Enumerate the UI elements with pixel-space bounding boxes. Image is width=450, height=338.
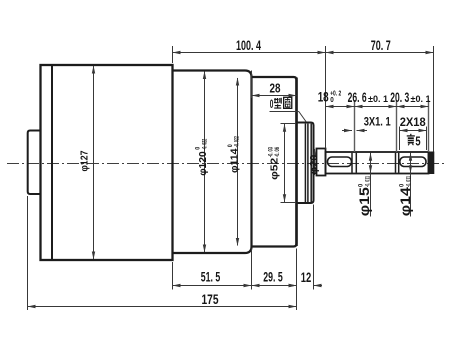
svg-text:-0. 022: -0. 022 <box>235 136 241 147</box>
shaft shoulder line 2 <box>395 153 397 173</box>
motor body phi127 <box>41 65 173 260</box>
bottom extension at front face <box>296 249 298 311</box>
dim phi52 extension lines <box>281 123 297 125</box>
dim 70.7 extension right <box>433 46 435 152</box>
dim phi127 line <box>93 66 95 259</box>
dim 28 extension <box>251 71 253 99</box>
svg-text:12: 12 <box>301 269 312 285</box>
O-ring groove on boss <box>304 124 306 202</box>
svg-text:-0. 022: -0. 022 <box>202 138 208 149</box>
hanzi quan (O-ring label) <box>284 97 292 108</box>
dim phi15 leader <box>370 153 372 217</box>
svg-text:φ120: φ120 <box>197 151 209 176</box>
svg-text:51. 5: 51. 5 <box>201 269 221 285</box>
dim divider extension at shaft root <box>325 46 327 149</box>
end cap seam <box>51 66 53 259</box>
svg-text:100. 4: 100. 4 <box>236 37 261 53</box>
gearbox section phi120 <box>173 71 252 254</box>
bottom extension at phi114 start <box>251 249 253 290</box>
svg-text:φ20: φ20 <box>308 154 320 174</box>
svg-text:70. 7: 70. 7 <box>371 37 391 53</box>
svg-text:φ114: φ114 <box>229 148 241 173</box>
keyway slot 1 <box>328 157 352 167</box>
hanzi kuan (width label) <box>407 134 415 146</box>
svg-text:0: 0 <box>270 97 274 111</box>
svg-text:-0. 011: -0. 011 <box>365 176 372 187</box>
pilot boss phi52 <box>297 123 314 204</box>
boss face inner line <box>310 124 312 202</box>
dim line 51.5 / 29.5 <box>173 285 297 287</box>
svg-text:φ52: φ52 <box>269 158 281 180</box>
svg-text:-0. 011: -0. 011 <box>405 176 412 187</box>
shaft outline <box>326 152 429 174</box>
svg-text:175: 175 <box>202 292 219 307</box>
rear bearing boss <box>28 131 41 195</box>
svg-text:3X1. 1: 3X1. 1 <box>364 115 391 129</box>
hanzi xing (O-ring label) <box>274 98 281 108</box>
circlip groove 2 <box>398 153 400 173</box>
dim phi52 line <box>284 124 286 202</box>
bottom extension at gearbox rear <box>172 262 174 290</box>
svg-text:2X18: 2X18 <box>400 115 426 129</box>
dim 12 outside arrows <box>288 285 297 287</box>
svg-text:φ127: φ127 <box>78 150 90 171</box>
O-ring leader <box>270 111 299 113</box>
bottom extension at boss face <box>313 205 315 290</box>
centerline <box>7 163 444 165</box>
svg-text:±0. 1: ±0. 1 <box>411 94 432 105</box>
extension line at shaft keyway end <box>428 100 430 152</box>
dim phi114 line <box>237 78 239 246</box>
dim line 100.4 / 70.7 <box>173 52 434 54</box>
extension line at groove 2 <box>396 100 398 152</box>
svg-text:28: 28 <box>270 80 281 95</box>
front mounting face <box>295 78 298 247</box>
gearbox section phi114 <box>252 77 297 247</box>
svg-text:φ15: φ15 <box>356 187 372 216</box>
dim phi20 line <box>314 149 316 175</box>
keyway slot 2 <box>400 157 426 167</box>
dim 175 extension left <box>27 196 29 310</box>
dim line 28 <box>252 95 297 97</box>
dim 100.4 extension left <box>172 46 174 63</box>
dim line keyway length <box>400 130 427 132</box>
shaft shoulder line 1 <box>351 153 353 173</box>
dim 3x1.1 arrows <box>342 130 352 132</box>
dim line 175 <box>28 306 297 308</box>
extension line at groove 1 <box>354 100 356 152</box>
svg-text:29. 5: 29. 5 <box>263 269 283 285</box>
shaft step phi20 <box>317 149 326 176</box>
svg-text:18: 18 <box>318 90 329 105</box>
shaft end collar <box>428 152 434 174</box>
circlip groove 1 <box>355 153 357 173</box>
keyway length extension lines <box>399 127 401 151</box>
svg-text:0: 0 <box>358 183 365 187</box>
svg-text:±0. 1: ±0. 1 <box>368 94 389 105</box>
dim phi120 line <box>204 72 206 253</box>
svg-text:5: 5 <box>415 133 420 148</box>
dim phi14 leader <box>410 153 412 217</box>
svg-text:-0. 06: -0. 06 <box>274 147 281 157</box>
dim line shaft lengths <box>326 106 429 108</box>
svg-text:φ14: φ14 <box>397 187 413 216</box>
svg-text:20. 3: 20. 3 <box>390 90 409 105</box>
svg-text:0: 0 <box>398 183 405 187</box>
svg-text:0: 0 <box>330 95 334 104</box>
svg-text:26. 6: 26. 6 <box>348 90 367 105</box>
